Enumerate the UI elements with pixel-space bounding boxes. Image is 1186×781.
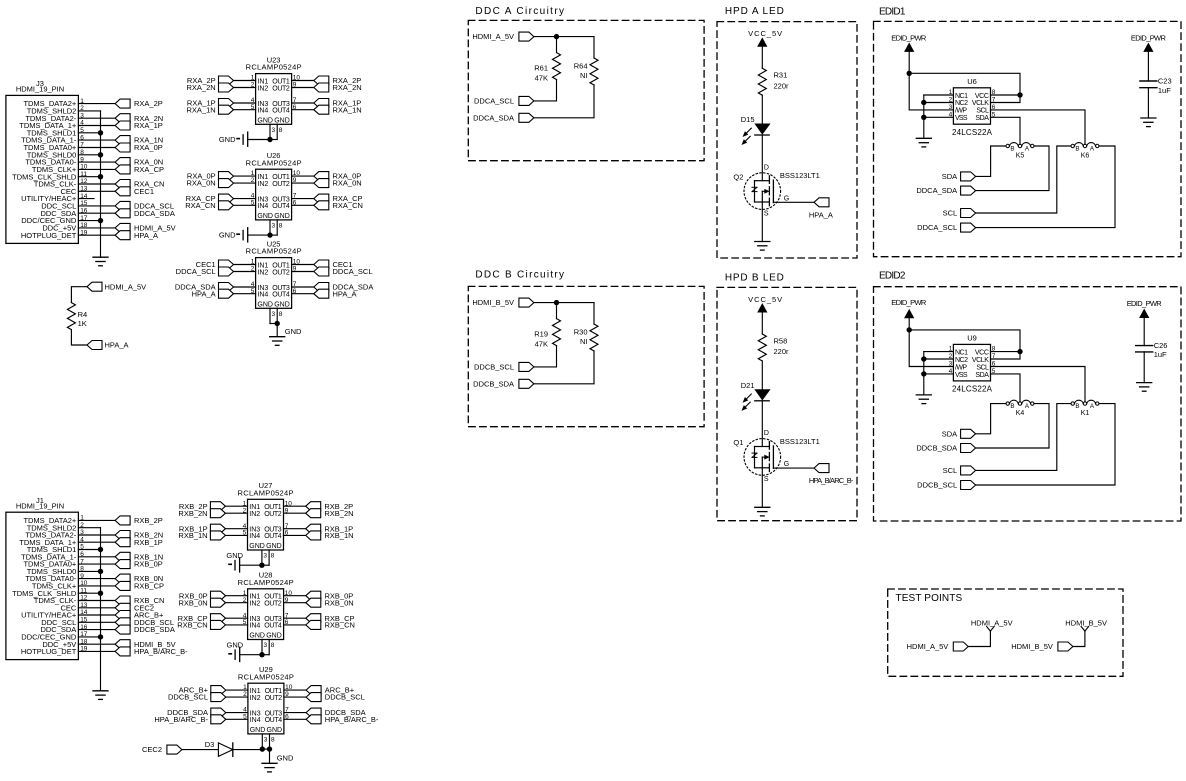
node HDMI_B_5V (J1 pin 18) bbox=[115, 640, 176, 649]
wire J3 pin4 bbox=[78, 125, 115, 127]
dashed box EDID1 bbox=[874, 21, 1182, 256]
wire J1 pin19 bbox=[78, 650, 115, 652]
section title DDC B Circuitry bbox=[475, 269, 565, 280]
wire J3 pin17 to shield bus bbox=[78, 220, 100, 222]
svg-text:HPA_B/ARC_B-: HPA_B/ARC_B- bbox=[134, 647, 188, 656]
svg-text:8: 8 bbox=[992, 346, 996, 353]
svg-text:1K: 1K bbox=[78, 319, 87, 328]
wire J1 pin1 bbox=[78, 519, 115, 521]
svg-text:HDMI_A_5V: HDMI_A_5V bbox=[105, 282, 147, 291]
wire R64 to DDCA_SDA bbox=[534, 85, 594, 118]
ground J1 shield bbox=[93, 691, 108, 700]
svg-text:HDMI_19_PIN: HDMI_19_PIN bbox=[16, 85, 64, 94]
svg-text:IN2: IN2 bbox=[257, 181, 268, 188]
section title HPD B LED bbox=[725, 272, 785, 283]
wire J1 pin3 bbox=[78, 534, 115, 536]
wire J1 pin10 bbox=[78, 585, 115, 587]
svg-text:OUT1: OUT1 bbox=[272, 78, 290, 85]
svg-text:HDMI_B_5V: HDMI_B_5V bbox=[472, 298, 514, 307]
node DDCA_SDA (J3 pin 16) bbox=[115, 209, 175, 218]
svg-text:GND: GND bbox=[257, 302, 273, 309]
dashed box HPD A LED bbox=[717, 22, 857, 258]
svg-text:R61: R61 bbox=[534, 64, 548, 73]
junction U28 ground bbox=[259, 652, 264, 657]
ground GND at U26 bbox=[219, 228, 270, 242]
svg-text:CEC2: CEC2 bbox=[142, 745, 162, 754]
svg-text:RXA_2P: RXA_2P bbox=[134, 99, 163, 108]
wire EDID_PWR to U6 /WP bbox=[909, 73, 953, 110]
svg-text:HPA_A: HPA_A bbox=[134, 231, 158, 240]
wire J3 pin5 to shield bus bbox=[78, 132, 100, 134]
svg-text:1uF: 1uF bbox=[1154, 350, 1167, 359]
node SDA (EDID2) bbox=[942, 429, 976, 438]
node RXB_1P (to U27 pin 4) bbox=[179, 524, 248, 533]
svg-text:IN2: IN2 bbox=[257, 269, 268, 276]
svg-text:IN2: IN2 bbox=[249, 511, 260, 518]
svg-text:D15: D15 bbox=[741, 115, 755, 124]
node RXB_0P (to U28 pin 1) bbox=[179, 591, 248, 600]
svg-text:OUT1: OUT1 bbox=[264, 504, 282, 511]
node RXB_2N (from U27 pin 9) bbox=[284, 509, 354, 518]
node RXA_CP (J3 pin 10) bbox=[115, 165, 164, 174]
node RXA_CP (to U26 pin 4) bbox=[186, 194, 256, 203]
junction U25 ground bbox=[275, 321, 280, 326]
svg-text:GND: GND bbox=[219, 135, 236, 144]
ground at U9 bbox=[916, 395, 931, 404]
svg-text:3: 3 bbox=[272, 127, 276, 134]
wire J1 pin2 to shield bus bbox=[78, 527, 100, 529]
section title EDID1 bbox=[879, 7, 906, 18]
wire EDID_PWR to U9 VCC/VCLK bbox=[909, 330, 1020, 359]
svg-text:OUT2: OUT2 bbox=[264, 601, 282, 608]
IC U26 RCLAMP0524P bbox=[246, 151, 302, 220]
ground GND at U28 bbox=[227, 641, 263, 662]
wire Q2 source to ground bbox=[761, 202, 763, 242]
svg-text:VCLK: VCLK bbox=[972, 357, 989, 364]
svg-text:G: G bbox=[784, 195, 789, 202]
wire C26 to ground bbox=[1143, 352, 1145, 383]
svg-text:GND: GND bbox=[285, 327, 302, 336]
svg-text:RCLAMP0524P: RCLAMP0524P bbox=[246, 63, 302, 72]
node DDCA_SCL (EDID1) bbox=[917, 223, 975, 232]
wire J1 pin6 bbox=[78, 556, 115, 558]
svg-text:S: S bbox=[764, 476, 769, 483]
node RXB_1P (from U27 pin 7) bbox=[284, 524, 354, 533]
node DDCB_SDA (from U29 pin 7) bbox=[284, 708, 366, 717]
node RXB_CN (to U28 pin 5) bbox=[177, 620, 247, 629]
svg-text:8: 8 bbox=[279, 223, 283, 230]
wire Q2 gate to HPA_A bbox=[773, 201, 814, 203]
svg-text:IN4: IN4 bbox=[257, 292, 268, 299]
node CEC1 (from U25 pin 10) bbox=[292, 260, 353, 269]
dashed box TEST POINTS bbox=[888, 589, 1123, 676]
wire J3 pin8 to shield bus bbox=[78, 154, 100, 156]
node RXA_1N (to U23 pin 5) bbox=[187, 105, 256, 114]
svg-text:NC2: NC2 bbox=[955, 357, 968, 364]
wire SDA to jumper bbox=[976, 404, 1006, 434]
wire J3 pin18 bbox=[78, 227, 115, 229]
junction HDMI_A_5V bbox=[554, 34, 559, 39]
svg-text:SDA: SDA bbox=[942, 172, 957, 181]
svg-text:U9: U9 bbox=[967, 334, 977, 343]
svg-text:GND: GND bbox=[266, 633, 282, 640]
node RXB_0N (from U28 pin 9) bbox=[284, 598, 354, 607]
svg-text:EDID_PWR: EDID_PWR bbox=[1127, 299, 1163, 308]
IC U25 RCLAMP0524P bbox=[246, 239, 302, 308]
svg-text:HDMI_B_5V: HDMI_B_5V bbox=[1065, 618, 1107, 627]
node RXA_2P (J3 pin 1) bbox=[115, 99, 163, 108]
svg-text:RCLAMP0524P: RCLAMP0524P bbox=[238, 488, 294, 497]
svg-text:B: B bbox=[1010, 403, 1014, 410]
svg-text:DDCB_SCL: DDCB_SCL bbox=[474, 363, 514, 372]
junction J3 pin17 bbox=[98, 218, 103, 223]
svg-text:RXA_CP: RXA_CP bbox=[134, 165, 164, 174]
U28 GND pins 3 and 8 bbox=[262, 640, 275, 655]
svg-text:HDMI_B_5V: HDMI_B_5V bbox=[1011, 642, 1053, 651]
node RXA_1N (from U23 pin 6) bbox=[292, 105, 362, 114]
capacitor C23 1uF bbox=[1140, 77, 1172, 95]
svg-text:RXB_1N: RXB_1N bbox=[178, 531, 207, 540]
node RXB_0P (from U28 pin 10) bbox=[284, 591, 354, 600]
svg-text:HOTPLUG_DET: HOTPLUG_DET bbox=[21, 231, 77, 240]
wire J3 pin2 to shield bus bbox=[78, 110, 100, 112]
svg-text:D: D bbox=[764, 430, 769, 437]
svg-text:47K: 47K bbox=[535, 339, 548, 348]
svg-text:SCL: SCL bbox=[976, 108, 989, 115]
svg-text:OUT2: OUT2 bbox=[264, 511, 282, 518]
svg-text:GND: GND bbox=[274, 213, 290, 220]
wire SCL to jumper bbox=[976, 146, 1071, 213]
resistor R4 1K bbox=[67, 303, 87, 330]
svg-text:GND: GND bbox=[250, 727, 266, 734]
svg-text:SCL: SCL bbox=[943, 209, 958, 218]
wire HDMI_B_5V to test point bbox=[1073, 631, 1085, 646]
svg-text:3: 3 bbox=[272, 311, 276, 318]
wire SDA to jumper bbox=[976, 146, 1006, 176]
svg-text:220r: 220r bbox=[774, 81, 790, 90]
svg-text:GND: GND bbox=[274, 118, 290, 125]
ground at C26 bbox=[1137, 383, 1152, 392]
node RXA_CN (from U26 pin 6) bbox=[292, 201, 363, 210]
wire J1 pin15 bbox=[78, 621, 115, 623]
wire U9 SDA to K4 bbox=[991, 374, 1021, 402]
wire SCL to jumper bbox=[976, 404, 1071, 471]
resistor R30 NI bbox=[574, 324, 598, 351]
svg-text:DDCA_SDA: DDCA_SDA bbox=[916, 186, 957, 195]
node RXB_2N (J1 pin 3) bbox=[115, 531, 163, 540]
resistor R31 220r bbox=[758, 68, 789, 95]
node CEC1 (to U25 pin 1) bbox=[196, 260, 256, 269]
node RXB_CP (J1 pin 10) bbox=[115, 581, 164, 590]
node ARC_B+ (from U29 pin 10) bbox=[284, 686, 355, 695]
node RXA_1P (to U23 pin 4) bbox=[187, 99, 256, 108]
svg-text:RCLAMP0524P: RCLAMP0524P bbox=[246, 247, 302, 256]
wire J3 pin7 bbox=[78, 147, 115, 149]
wire R61 to DDCA_SCL bbox=[534, 80, 557, 101]
wire J1 pin18 bbox=[78, 643, 115, 645]
svg-text:3: 3 bbox=[949, 361, 953, 368]
wire R19 to DDCB_SCL bbox=[534, 346, 557, 367]
svg-text:OUT2: OUT2 bbox=[272, 269, 290, 276]
node DDCA_SCL (J3 pin 15) bbox=[115, 201, 174, 210]
svg-text:D21: D21 bbox=[741, 381, 755, 390]
node ARC_B+ (J1 pin 14) bbox=[115, 611, 164, 620]
transistor Q1 BSS123LT1 bbox=[733, 430, 819, 483]
test point HDMI_A_5V bbox=[971, 618, 1013, 631]
resistor R64 NI bbox=[574, 58, 598, 85]
node RXA_1P (from U23 pin 7) bbox=[292, 99, 362, 108]
node DDCB_SCL (EDID2) bbox=[917, 481, 975, 490]
svg-text:RXB_0N: RXB_0N bbox=[325, 598, 354, 607]
wire J1 pin17 to shield bus bbox=[78, 636, 100, 638]
ground at Q1 bbox=[755, 507, 770, 516]
junction U29 ground pins bbox=[260, 746, 273, 751]
svg-text:EDID_PWR: EDID_PWR bbox=[891, 298, 927, 307]
svg-text:B: B bbox=[1010, 146, 1014, 153]
capacitor C26 1uF bbox=[1136, 341, 1168, 359]
ground GND at U23 bbox=[219, 132, 270, 146]
svg-text:HPA_A: HPA_A bbox=[192, 289, 216, 298]
node RXB_CN (J1 pin 12) bbox=[115, 596, 164, 605]
node RXB_CN (from U28 pin 6) bbox=[284, 620, 355, 629]
node RXA_CN (J3 pin 12) bbox=[115, 180, 164, 189]
wire J3 pin12 bbox=[78, 183, 115, 185]
ground at C23 bbox=[1141, 118, 1156, 127]
svg-text:R31: R31 bbox=[774, 71, 788, 80]
svg-text:RXA_2N: RXA_2N bbox=[187, 83, 216, 92]
svg-text:NC1: NC1 bbox=[955, 93, 968, 100]
svg-text:3: 3 bbox=[949, 104, 953, 111]
svg-text:C23: C23 bbox=[1158, 77, 1172, 86]
svg-text:HPA_A: HPA_A bbox=[333, 289, 357, 298]
node DDCA_SDA (from U25 pin 7) bbox=[292, 283, 374, 292]
svg-text:GND: GND bbox=[274, 302, 290, 309]
wire J3 pin19 bbox=[78, 234, 115, 236]
svg-text:SDA: SDA bbox=[942, 429, 957, 438]
svg-text:S: S bbox=[764, 210, 769, 217]
junction J1 pin8 bbox=[98, 569, 103, 574]
node DDCB_SCL bbox=[474, 362, 534, 371]
wire Q1 source to ground bbox=[761, 468, 763, 508]
svg-text:VCC_5V: VCC_5V bbox=[748, 295, 782, 304]
dashed box DDC B Circuitry bbox=[468, 286, 704, 426]
svg-text:RXA_2N: RXA_2N bbox=[333, 83, 362, 92]
node RXB_2P (from U27 pin 10) bbox=[284, 502, 354, 511]
node SCL (EDID2) bbox=[943, 466, 976, 475]
wire U9 NC1/NC2/VSS to ground bbox=[924, 352, 954, 395]
junction EDID_PWR U9 bbox=[907, 327, 912, 332]
svg-text:VCC: VCC bbox=[975, 349, 989, 356]
node RXA_1P (J3 pin 4) bbox=[115, 121, 163, 130]
U26 GND pins 3 and 8 bbox=[270, 220, 283, 235]
wire J3 pin6 bbox=[78, 139, 115, 141]
svg-text:/WP: /WP bbox=[955, 364, 967, 371]
wire D3 cathode to U29 GND pins bbox=[233, 749, 262, 751]
svg-text:DDCB_SCL: DDCB_SCL bbox=[325, 693, 365, 702]
junction U9 VSS bbox=[921, 371, 926, 376]
node RXA_0N (from U26 pin 9) bbox=[292, 179, 362, 188]
svg-text:VSS: VSS bbox=[955, 372, 968, 379]
svg-text:DDCA_SDA: DDCA_SDA bbox=[134, 209, 175, 218]
node HPA_B/ARC_B- bbox=[809, 464, 854, 486]
node RXA_CN (to U26 pin 5) bbox=[185, 201, 255, 210]
wire J1 pin7 bbox=[78, 563, 115, 565]
IC U27 RCLAMP0524P bbox=[238, 481, 294, 550]
node SCL (EDID1) bbox=[943, 209, 976, 218]
svg-text:DDCB_SCL: DDCB_SCL bbox=[917, 481, 957, 490]
svg-text:B: B bbox=[1075, 403, 1079, 410]
node HPA_B/ARC_B- (from U29 pin 6) bbox=[284, 715, 379, 724]
power VCC_5V bbox=[748, 29, 782, 68]
wire J1 pin9 bbox=[78, 578, 115, 580]
svg-text:R4: R4 bbox=[78, 310, 88, 319]
node RXA_0N (to U26 pin 2) bbox=[187, 179, 256, 188]
U23 GND pins 3 and 8 bbox=[270, 124, 283, 139]
node RXB_2P (J1 pin 1) bbox=[115, 516, 163, 525]
node RXA_CP (from U26 pin 7) bbox=[292, 194, 363, 203]
svg-text:RXB_1P: RXB_1P bbox=[134, 538, 163, 547]
svg-text:R30: R30 bbox=[574, 327, 588, 336]
svg-text:R64: R64 bbox=[574, 61, 588, 70]
wire HDMI_A_5V to R61 and R64 bbox=[534, 37, 594, 58]
junction J1 pin11 bbox=[98, 591, 103, 596]
node HPA_A bbox=[87, 341, 129, 350]
wire Q1 gate to HPA_B/ARC_B- bbox=[773, 467, 814, 469]
wire DDCA_SDA to jumper bbox=[976, 146, 1049, 191]
svg-text:G: G bbox=[784, 461, 789, 468]
ground GND at U25 bbox=[270, 324, 302, 346]
wire R31 to D15 bbox=[761, 95, 763, 124]
svg-text:RXB_CN: RXB_CN bbox=[177, 621, 207, 630]
svg-text:DDCB_SDA: DDCB_SDA bbox=[134, 625, 175, 634]
svg-text:220r: 220r bbox=[774, 347, 790, 356]
svg-text:A: A bbox=[1090, 146, 1095, 153]
svg-text:VCC: VCC bbox=[975, 93, 989, 100]
node RXA_2P (from U23 pin 10) bbox=[292, 76, 362, 85]
svg-text:IN4: IN4 bbox=[249, 533, 260, 540]
svg-text:OUT4: OUT4 bbox=[264, 533, 282, 540]
IC U9 24LCS22A bbox=[949, 334, 996, 394]
svg-text:TEST POINTS: TEST POINTS bbox=[896, 593, 964, 604]
svg-text:RCLAMP0524P: RCLAMP0524P bbox=[238, 672, 294, 681]
section title HPD A LED bbox=[725, 6, 785, 17]
svg-text:GND: GND bbox=[227, 641, 244, 650]
node HDMI_A_5V bbox=[472, 32, 534, 41]
wire J3 pin11 to shield bus bbox=[78, 176, 100, 178]
svg-text:HPA_B/ARC_B-: HPA_B/ARC_B- bbox=[325, 715, 379, 724]
svg-text:RCLAMP0524P: RCLAMP0524P bbox=[238, 578, 294, 587]
svg-text:HDMI_19_PIN: HDMI_19_PIN bbox=[16, 502, 64, 511]
diode D3 bbox=[205, 740, 233, 756]
ground at Q2 bbox=[755, 242, 770, 251]
node HDMI_B_5V bbox=[472, 298, 534, 307]
svg-text:HPA_B/ARC_B-: HPA_B/ARC_B- bbox=[154, 715, 208, 724]
svg-text:HPD A LED: HPD A LED bbox=[725, 6, 785, 17]
svg-text:GND: GND bbox=[257, 213, 273, 220]
svg-text:RXB_2N: RXB_2N bbox=[324, 509, 353, 518]
svg-text:DDCA_SCL: DDCA_SCL bbox=[176, 267, 216, 276]
node DDCA_SDA (to U25 pin 4) bbox=[175, 283, 256, 292]
svg-text:8: 8 bbox=[271, 553, 275, 560]
node DDCB_SCL (to U29 pin 2) bbox=[168, 693, 248, 702]
svg-text:CEC1: CEC1 bbox=[134, 187, 154, 196]
junction U9 NC2 bbox=[921, 356, 926, 361]
junction U6 NC2 bbox=[921, 100, 926, 105]
svg-text:SCL: SCL bbox=[943, 466, 958, 475]
connector J3 HDMI_19_PIN bbox=[6, 79, 88, 243]
node DDCB_SDA (to U29 pin 4) bbox=[167, 708, 248, 717]
jumper K5 bbox=[1006, 143, 1034, 160]
svg-text:24LCS22A: 24LCS22A bbox=[952, 384, 993, 393]
svg-text:RXA_0P: RXA_0P bbox=[134, 143, 163, 152]
node DDCB_SDA (J1 pin 16) bbox=[115, 625, 175, 634]
svg-text:RXB_2P: RXB_2P bbox=[134, 516, 163, 525]
svg-text:GND: GND bbox=[277, 753, 294, 762]
svg-text:IN4: IN4 bbox=[250, 717, 261, 724]
svg-text:B: B bbox=[1075, 146, 1079, 153]
node RXB_1N (to U27 pin 5) bbox=[178, 531, 247, 540]
wire J1 pin4 bbox=[78, 541, 115, 543]
junction J1 pin5 bbox=[98, 547, 103, 552]
svg-text:A: A bbox=[1025, 146, 1030, 153]
wire U9 SCL to K1 bbox=[991, 367, 1086, 402]
junction EDID_PWR U6 bbox=[907, 71, 912, 76]
node CEC2 (J1 pin 13) bbox=[115, 603, 154, 612]
resistor R61 47K bbox=[534, 53, 560, 83]
shield bus J3 bbox=[100, 111, 102, 257]
svg-text:OUT2: OUT2 bbox=[265, 695, 283, 702]
svg-text:HPA_A: HPA_A bbox=[105, 341, 129, 350]
dashed box EDID2 bbox=[874, 287, 1182, 521]
section title TEST POINTS bbox=[896, 593, 964, 604]
node DDCA_SCL (to U25 pin 2) bbox=[176, 267, 256, 276]
node HPA_A (to U25 pin 5) bbox=[192, 289, 256, 298]
svg-text:8: 8 bbox=[271, 737, 275, 744]
svg-text:NI: NI bbox=[580, 337, 588, 346]
svg-text:8: 8 bbox=[271, 642, 275, 649]
wire J1 pin16 bbox=[78, 629, 115, 631]
power EDID_PWR at C23 bbox=[1131, 34, 1167, 81]
node HDMI_B_5V test point tag bbox=[1011, 642, 1073, 651]
svg-text:A: A bbox=[1025, 403, 1030, 410]
wire HDMI_A_5V to R4 bbox=[71, 287, 87, 303]
svg-text:EDID2: EDID2 bbox=[879, 270, 906, 281]
node HDMI_A_5V bbox=[87, 282, 146, 291]
junction J3 pin5 bbox=[98, 130, 103, 135]
svg-text:DDCA_SDA: DDCA_SDA bbox=[473, 113, 514, 122]
wire J3 pin9 bbox=[78, 161, 115, 163]
svg-text:IN1: IN1 bbox=[257, 174, 268, 181]
wire J1 pin12 bbox=[78, 600, 115, 602]
svg-text:IN2: IN2 bbox=[250, 695, 261, 702]
node HPA_B/ARC_B- (to U29 pin 5) bbox=[154, 715, 248, 724]
svg-text:OUT1: OUT1 bbox=[264, 594, 282, 601]
node RXB_2P (to U27 pin 1) bbox=[179, 502, 248, 511]
junction U23 ground bbox=[267, 137, 272, 142]
node RXA_0N (J3 pin 9) bbox=[115, 158, 163, 167]
jumper K1 bbox=[1071, 400, 1099, 417]
wire R4 to HPA_A bbox=[71, 330, 87, 345]
IC U28 RCLAMP0524P bbox=[238, 571, 294, 640]
power VCC_5V bbox=[748, 295, 782, 334]
node DDCB_SDA bbox=[473, 379, 534, 388]
node RXB_0N (to U28 pin 2) bbox=[179, 598, 248, 607]
svg-text:IN2: IN2 bbox=[257, 85, 268, 92]
wire D15 to Q2 drain bbox=[761, 135, 763, 181]
svg-text:RXA_0N: RXA_0N bbox=[187, 179, 216, 188]
node RXB_1N (from U27 pin 6) bbox=[284, 531, 354, 540]
power EDID_PWR at U6 bbox=[891, 34, 927, 74]
